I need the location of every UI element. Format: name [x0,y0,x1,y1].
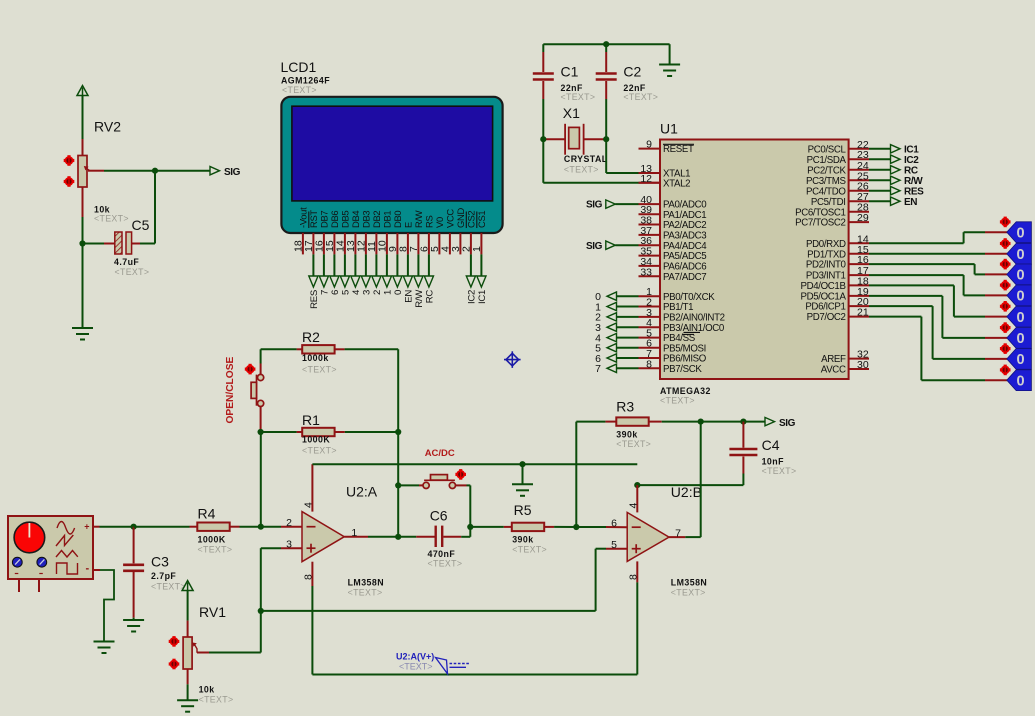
svg-text:RESET: RESET [663,144,694,155]
svg-text:29: 29 [857,212,869,224]
svg-text:8: 8 [646,358,652,370]
svg-text:RS: RS [424,216,435,228]
svg-text:8: 8 [627,574,639,580]
svg-text:C5: C5 [132,217,150,233]
svg-text:CRYSTAL: CRYSTAL [564,154,608,164]
svg-text:R5: R5 [514,502,532,518]
svg-text:R/W: R/W [414,289,425,308]
svg-text:0: 0 [1016,352,1024,368]
svg-text:XTAL2: XTAL2 [663,178,690,189]
svg-text:<TEXT>: <TEXT> [671,588,706,598]
svg-text:<TEXT>: <TEXT> [302,365,337,375]
svg-text:<TEXT>: <TEXT> [561,92,596,102]
svg-text:8: 8 [303,574,315,580]
svg-text:AC/DC: AC/DC [425,448,455,459]
svg-text:PA2/ADC2: PA2/ADC2 [663,220,706,231]
svg-text:1000K: 1000K [302,435,330,445]
svg-text:PB1/T1: PB1/T1 [663,302,693,313]
svg-text:PD2/INT0: PD2/INT0 [806,260,847,271]
svg-text:V0: V0 [434,217,445,228]
svg-text:1: 1 [383,290,394,295]
svg-text:U2:B: U2:B [671,484,702,500]
svg-text:30: 30 [857,359,869,371]
svg-text:U1: U1 [660,121,678,137]
svg-text:5: 5 [611,539,617,551]
svg-text:IC1: IC1 [904,145,919,156]
svg-text:7: 7 [320,290,331,295]
svg-text:R3: R3 [616,399,634,415]
svg-text:7: 7 [675,527,681,539]
svg-text:ATMEGA32: ATMEGA32 [660,386,711,396]
svg-text:PC4/TDO: PC4/TDO [806,186,846,197]
svg-text:PA7/ADC7: PA7/ADC7 [663,272,706,283]
svg-text:RES: RES [904,187,924,198]
svg-text:IC1: IC1 [477,290,488,304]
svg-text:3: 3 [286,538,292,550]
svg-text:6: 6 [611,518,617,530]
svg-text:IC2: IC2 [467,290,478,304]
svg-text:10k: 10k [199,685,215,695]
svg-text:<TEXT>: <TEXT> [623,92,658,102]
svg-text:PC6/TOSC1: PC6/TOSC1 [795,207,846,218]
svg-text:PD4/OC1B: PD4/OC1B [800,281,845,292]
svg-text:RV1: RV1 [199,604,226,620]
svg-text:R2: R2 [302,329,320,345]
svg-text:C1: C1 [561,64,579,80]
svg-text:CS2: CS2 [466,211,477,228]
svg-text:X1: X1 [563,105,580,121]
svg-text:<TEXT>: <TEXT> [198,545,233,555]
svg-text:R/W: R/W [904,176,923,187]
svg-text:<TEXT>: <TEXT> [616,439,651,449]
svg-text:1000K: 1000K [198,535,226,545]
svg-text:SIG: SIG [224,167,241,178]
svg-text:DB5: DB5 [340,211,351,228]
svg-text:R1: R1 [302,412,320,428]
svg-text:PC5/TDI: PC5/TDI [811,197,846,208]
svg-text:21: 21 [857,307,869,319]
svg-text:RC: RC [904,166,918,177]
svg-text:0: 0 [393,290,404,295]
svg-text:<TEXT>: <TEXT> [660,396,695,406]
svg-text:-: - [86,563,90,575]
svg-text:DB7: DB7 [319,211,330,228]
svg-text:6: 6 [330,290,341,295]
svg-text:DB2: DB2 [371,211,382,228]
svg-text:0: 0 [1016,289,1024,305]
svg-text:C4: C4 [762,437,780,453]
svg-text:<TEXT>: <TEXT> [151,582,186,592]
svg-text:2: 2 [286,517,292,529]
svg-text:VCC: VCC [445,209,456,228]
svg-text:R/W: R/W [413,210,424,228]
svg-text:1000k: 1000k [302,353,329,363]
svg-text:<TEXT>: <TEXT> [564,165,599,175]
svg-text:<TEXT>: <TEXT> [282,85,317,95]
svg-text:EN: EN [904,197,917,208]
svg-text:RC: RC [425,290,436,304]
svg-text:4: 4 [303,502,315,508]
svg-text:470nF: 470nF [428,549,456,559]
svg-text:1: 1 [471,246,483,252]
svg-text:LCD1: LCD1 [281,59,317,75]
svg-text:SIG: SIG [586,241,603,252]
svg-text:PC0/SCL: PC0/SCL [808,144,847,155]
svg-text:PC2/TCK: PC2/TCK [807,165,846,176]
svg-text:4.7uF: 4.7uF [114,257,139,267]
svg-text:PC3/TMS: PC3/TMS [806,176,846,187]
svg-text:R4: R4 [198,506,216,522]
svg-text:LM358N: LM358N [671,578,707,588]
svg-text:SIG: SIG [779,418,796,429]
svg-text:<TEXT>: <TEXT> [199,695,234,705]
svg-text:E: E [403,222,414,228]
svg-text:7: 7 [595,363,601,375]
svg-text:<TEXT>: <TEXT> [115,267,150,277]
svg-text:DB4: DB4 [350,211,361,228]
svg-text:PD7/OC2: PD7/OC2 [807,312,846,323]
svg-text:EN: EN [404,290,415,303]
svg-text:PD6/ICP1: PD6/ICP1 [805,302,845,313]
svg-text:390k: 390k [616,430,637,440]
svg-text:DB3: DB3 [361,211,372,228]
svg-text:PD0/RXD: PD0/RXD [806,239,846,250]
svg-text:PA4/ADC4: PA4/ADC4 [663,241,707,252]
svg-text:0: 0 [1016,310,1024,326]
svg-text:9: 9 [646,139,652,151]
svg-text:OPEN/CLOSE: OPEN/CLOSE [225,356,236,423]
svg-text:2: 2 [372,290,383,295]
svg-text:3: 3 [362,290,373,295]
svg-text:+: + [84,522,89,532]
svg-text:DB0: DB0 [392,211,403,228]
svg-text:U2:A(V+): U2:A(V+) [396,652,434,662]
svg-text:33: 33 [640,266,652,278]
svg-text:0: 0 [1016,226,1024,242]
svg-text:CS1: CS1 [476,211,487,228]
svg-text:2.7pF: 2.7pF [151,571,176,581]
svg-text:-Vout: -Vout [298,207,309,228]
svg-text:<TEXT>: <TEXT> [302,446,337,456]
svg-text:<TEXT>: <TEXT> [94,214,129,224]
svg-text:SIG: SIG [586,200,603,211]
svg-text:5: 5 [341,290,352,295]
svg-text:10nF: 10nF [762,457,785,467]
svg-text:C2: C2 [623,64,641,80]
svg-text:U2:A: U2:A [346,484,378,500]
svg-text:PC7/TOSC2: PC7/TOSC2 [795,218,846,229]
svg-text:PB7/SCK: PB7/SCK [663,364,702,375]
svg-text:LM358N: LM358N [348,578,384,588]
svg-text:0: 0 [1016,374,1024,390]
svg-text:PA6/ADC6: PA6/ADC6 [663,262,706,273]
svg-text:<TEXT>: <TEXT> [428,559,463,569]
svg-text:DB6: DB6 [329,211,340,228]
svg-text:1: 1 [351,527,357,539]
svg-text:12: 12 [640,173,652,185]
svg-text:C3: C3 [151,554,169,570]
svg-text:AGM1264F: AGM1264F [281,75,330,85]
svg-text:PC1/SDA: PC1/SDA [807,155,847,166]
svg-text:AVCC: AVCC [821,365,846,376]
svg-text:RES: RES [309,290,320,309]
svg-text:AREF: AREF [821,354,846,365]
svg-text:C6: C6 [430,508,448,524]
svg-text:0: 0 [1016,331,1024,347]
svg-text:GND: GND [455,208,466,228]
svg-text:0: 0 [1016,247,1024,263]
svg-text:DB1: DB1 [382,211,393,228]
svg-text:RST: RST [308,210,319,228]
svg-text:0: 0 [1016,268,1024,284]
svg-text:<TEXT>: <TEXT> [348,588,383,598]
svg-text:4: 4 [627,503,639,509]
svg-text:<TEXT>: <TEXT> [512,545,547,555]
svg-text:<TEXT>: <TEXT> [399,662,433,672]
svg-text:390k: 390k [512,535,533,545]
svg-text:RV2: RV2 [94,119,121,135]
svg-text:IC2: IC2 [904,155,919,166]
svg-text:<TEXT>: <TEXT> [762,466,797,476]
